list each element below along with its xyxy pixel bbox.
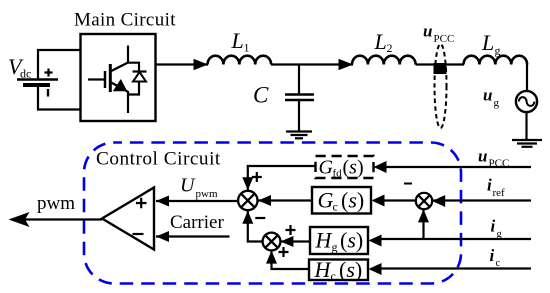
battery minus mark bbox=[47, 89, 49, 97]
AC source u_g bbox=[516, 91, 537, 112]
svg-text:L: L bbox=[481, 30, 494, 55]
svg-text:g: g bbox=[494, 97, 500, 109]
svg-text:(s): (s) bbox=[340, 228, 363, 253]
IGBT emitter stub bbox=[127, 91, 129, 113]
svg-text:(s): (s) bbox=[339, 257, 362, 282]
svg-text:(s): (s) bbox=[341, 188, 364, 213]
ground (capacitor) bbox=[286, 130, 312, 132]
IGBT gate lead bbox=[88, 78, 104, 80]
capacitor branch wire lower bbox=[298, 100, 300, 132]
svg-text:g: g bbox=[495, 44, 501, 58]
block G_fd bbox=[316, 156, 374, 178]
svg-text:1: 1 bbox=[244, 41, 250, 55]
svg-text:H: H bbox=[314, 257, 332, 282]
wire H_c to S2 bbox=[272, 251, 310, 269]
input line i_c bbox=[381, 267, 531, 269]
battery plate long bbox=[17, 78, 58, 80]
svg-text:g: g bbox=[497, 229, 503, 240]
capacitor branch wire upper bbox=[298, 65, 300, 95]
comparator minus bbox=[133, 233, 144, 235]
wire battery top bbox=[38, 50, 81, 79]
control circuit dashed box bbox=[84, 143, 461, 284]
inductor Lg bbox=[464, 56, 528, 65]
svg-text:g: g bbox=[332, 240, 338, 254]
svg-text:i: i bbox=[487, 176, 492, 195]
summing junction S3 bbox=[416, 193, 432, 209]
wire G_c to S1 bbox=[258, 199, 312, 201]
input line u_PCC bbox=[386, 166, 531, 168]
wire i_g branch to S3 bbox=[422, 209, 424, 239]
carrier wire bbox=[156, 235, 230, 237]
diode triangle bbox=[133, 72, 146, 82]
arrow into G_c bbox=[372, 195, 385, 207]
IGBT gate bar bbox=[104, 71, 107, 88]
pwm arrowhead bbox=[9, 212, 30, 227]
S1 minus sign bbox=[255, 217, 265, 219]
svg-text:u: u bbox=[483, 86, 492, 105]
inverter box bbox=[81, 34, 156, 121]
svg-text:2: 2 bbox=[387, 41, 393, 55]
ground (grid) bbox=[512, 139, 542, 141]
arrow into G_fd bbox=[374, 161, 387, 173]
wire source to ground bbox=[525, 112, 527, 140]
svg-text:U: U bbox=[180, 175, 196, 197]
wire inverter to L1 bbox=[156, 63, 209, 65]
svg-text:L: L bbox=[374, 29, 387, 54]
diode top link bbox=[128, 63, 139, 72]
S3 minus sign bbox=[404, 183, 412, 185]
pwm output wire bbox=[12, 218, 102, 220]
battery plate short bbox=[23, 83, 50, 87]
svg-text:i: i bbox=[490, 246, 495, 265]
wire S3 to G_c bbox=[384, 199, 416, 201]
svg-text:Control Circuit: Control Circuit bbox=[96, 148, 221, 169]
svg-text:G: G bbox=[319, 157, 334, 179]
svg-text:i: i bbox=[491, 217, 496, 236]
wire S1 to comparator plus bbox=[156, 200, 238, 202]
capacitor plates bbox=[285, 93, 314, 95]
S2 plus right bbox=[286, 225, 296, 235]
svg-text:L: L bbox=[231, 28, 244, 53]
arrow to L2 bbox=[339, 59, 354, 70]
wire battery bottom bbox=[38, 86, 81, 110]
block G_c bbox=[312, 187, 371, 214]
S2 plus bottom bbox=[279, 247, 289, 257]
IGBT emitter diagonal bbox=[110, 82, 127, 92]
inductor L1 bbox=[208, 56, 272, 65]
svg-text:PCC: PCC bbox=[434, 33, 455, 45]
svg-text:ref: ref bbox=[493, 187, 506, 199]
wire H_g to S2 bbox=[281, 240, 310, 242]
PCC dashed ellipse bbox=[435, 44, 447, 128]
diode cathode bar bbox=[133, 70, 147, 72]
arrow to L1 bbox=[194, 59, 209, 70]
svg-text:pwm: pwm bbox=[37, 193, 75, 214]
svg-text:Carrier: Carrier bbox=[170, 212, 224, 233]
svg-text:c: c bbox=[331, 269, 336, 283]
svg-text:u: u bbox=[423, 22, 432, 41]
svg-text:c: c bbox=[333, 200, 338, 214]
S1 plus sign bbox=[252, 172, 262, 182]
comparator U1 bbox=[102, 188, 154, 250]
summing junction S1 bbox=[238, 191, 257, 210]
wire L2 to Lg bbox=[416, 63, 465, 65]
diode bottom link bbox=[128, 82, 139, 95]
input line i_ref bbox=[432, 199, 531, 201]
svg-text:Main Circuit: Main Circuit bbox=[74, 10, 176, 31]
battery plus sign bbox=[45, 69, 53, 77]
summing junction S2 bbox=[263, 233, 281, 251]
wire S2 to S1 bbox=[248, 211, 263, 242]
feedback wire G_fd to S1 bbox=[248, 166, 316, 190]
inductor L2 bbox=[352, 56, 416, 65]
svg-text:pwm: pwm bbox=[196, 188, 218, 200]
wire Lg to source bbox=[526, 65, 528, 92]
block H_c bbox=[309, 260, 368, 281]
svg-text:fd: fd bbox=[333, 168, 343, 180]
svg-text:c: c bbox=[496, 258, 501, 269]
svg-text:PCC: PCC bbox=[489, 158, 510, 170]
arrow into H_c bbox=[369, 263, 382, 275]
IGBT emitter arrow bbox=[113, 79, 128, 91]
IGBT main bar bbox=[109, 64, 112, 92]
svg-text:H: H bbox=[315, 228, 333, 253]
IGBT collector stub bbox=[127, 46, 129, 64]
IGBT collector diagonal bbox=[110, 63, 128, 72]
node PCC square bbox=[434, 63, 447, 74]
input line i_g bbox=[381, 238, 531, 240]
comparator plus bbox=[136, 198, 147, 209]
block H_g bbox=[310, 227, 368, 254]
svg-text:u: u bbox=[478, 147, 487, 166]
arrow into H_g bbox=[369, 235, 382, 247]
svg-text:(s): (s) bbox=[343, 157, 364, 179]
svg-text:G: G bbox=[318, 188, 334, 213]
wire L1 to arrow2 bbox=[271, 63, 353, 65]
svg-text:C: C bbox=[253, 83, 269, 108]
